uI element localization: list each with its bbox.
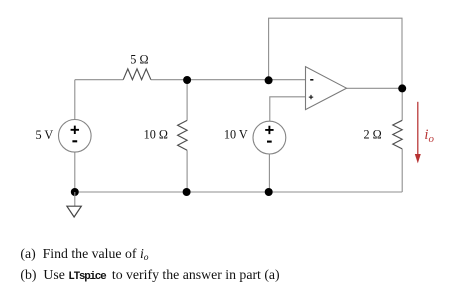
- node B junction dot minus input / feedback: [265, 76, 273, 84]
- wire top rail from 5V source to op-amp minus input: [75, 79, 306, 81]
- V2 minus sign: [267, 141, 272, 143]
- node D junction dot bottom rail at 5V: [71, 188, 79, 196]
- svg-text:5 V: 5 V: [36, 128, 54, 142]
- wire plus input to 10V source: [270, 97, 306, 122]
- wire bottom rail: [75, 191, 402, 193]
- svg-text:io: io: [424, 127, 434, 145]
- resistor R3 2-ohm vertical zigzag: [393, 120, 402, 149]
- caption line (a): [20, 247, 148, 264]
- wire 5V source verticals: [74, 80, 76, 192]
- voltage source V1 5V circle: [59, 120, 92, 153]
- resistor R1 5-ohm horizontal zigzag: [123, 69, 151, 80]
- ground symbol triangle: [67, 206, 81, 217]
- svg-text:10 V: 10 V: [224, 128, 248, 142]
- op-amp plus input mark: [309, 95, 313, 99]
- node A junction dot top rail / 10-ohm: [183, 76, 191, 84]
- node E junction dot bottom rail at 10-ohm: [183, 188, 191, 196]
- voltage source V2 10V circle: [253, 121, 286, 154]
- wire 2-ohm branch verticals: [401, 88, 403, 192]
- resistor R2 10-ohm vertical zigzag: [178, 120, 188, 150]
- svg-text:5 Ω: 5 Ω: [130, 53, 148, 67]
- wire 10V source bottom vertical: [268, 154, 270, 192]
- caption line (b): [20, 268, 279, 283]
- op-amp U1 triangle: [306, 67, 347, 110]
- node C junction dot op-amp output: [398, 84, 406, 92]
- V1 plus sign: [71, 126, 79, 134]
- current arrow io (red): [415, 102, 421, 164]
- wire feedback loop from minus node over the top to output node: [269, 18, 402, 88]
- op-amp minus input mark: [310, 79, 313, 81]
- svg-text:10 Ω: 10 Ω: [144, 128, 168, 142]
- wire op-amp output to node: [347, 87, 403, 89]
- wire 10-ohm branch verticals: [186, 80, 188, 192]
- V1 minus sign: [72, 140, 77, 142]
- svg-text:2 Ω: 2 Ω: [364, 128, 382, 142]
- node F junction dot bottom rail at 10V: [265, 188, 273, 196]
- ground stem wire: [74, 192, 76, 206]
- V2 plus sign: [265, 126, 273, 134]
